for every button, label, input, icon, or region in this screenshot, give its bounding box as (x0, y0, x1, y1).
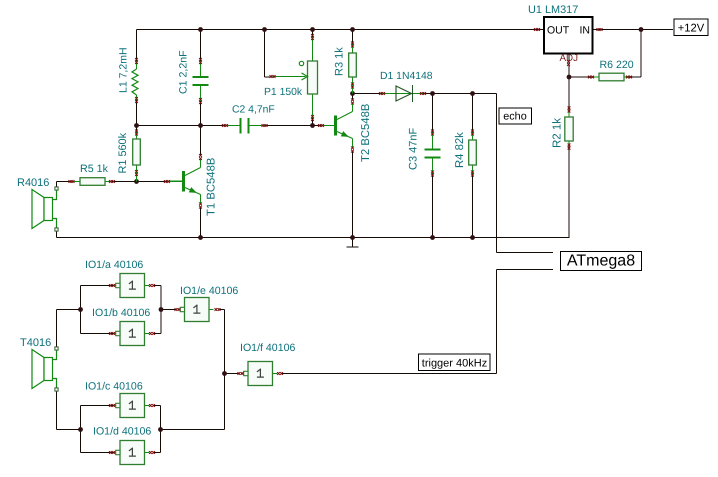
svg-text:U1 LM317: U1 LM317 (528, 4, 578, 16)
svg-text:T2 BC548B: T2 BC548B (360, 104, 372, 162)
svg-text:R4016: R4016 (17, 177, 49, 189)
svg-text:IN: IN (580, 25, 591, 37)
svg-text:trigger 40kHz: trigger 40kHz (422, 357, 487, 369)
svg-text:IO1/a 40106: IO1/a 40106 (85, 259, 143, 271)
svg-text:echo: echo (503, 111, 526, 123)
svg-text:R1 560k: R1 560k (117, 132, 129, 173)
svg-text:R5 1k: R5 1k (80, 163, 109, 175)
svg-text:R4 82k: R4 82k (454, 132, 466, 168)
svg-text:C2 4,7nF: C2 4,7nF (232, 105, 275, 116)
svg-text:IO1/f 40106: IO1/f 40106 (240, 342, 295, 354)
svg-text:T4016: T4016 (20, 337, 51, 349)
svg-text:IO1/c 40106: IO1/c 40106 (85, 381, 143, 393)
svg-text:D1 1N4148: D1 1N4148 (380, 71, 433, 82)
svg-text:OUT: OUT (547, 25, 570, 37)
svg-text:T1 BC548B: T1 BC548B (206, 158, 218, 216)
svg-text:C1 2,2nF: C1 2,2nF (178, 50, 190, 94)
svg-text:C3 47nF: C3 47nF (408, 128, 420, 170)
svg-text:P1 150k: P1 150k (264, 87, 303, 98)
svg-text:IO1/b 40106: IO1/b 40106 (92, 307, 150, 319)
svg-text:ADJ: ADJ (560, 53, 579, 64)
svg-text:L1 7,2mH: L1 7,2mH (118, 47, 130, 93)
svg-text:IO1/d 40106: IO1/d 40106 (93, 426, 151, 438)
svg-text:ATmega8: ATmega8 (567, 253, 635, 270)
svg-text:R3 1k: R3 1k (334, 47, 346, 76)
svg-text:R2 1k: R2 1k (552, 118, 564, 148)
svg-text:IO1/e 40106: IO1/e 40106 (180, 285, 238, 297)
svg-text:+12V: +12V (678, 23, 705, 35)
svg-text:R6 220: R6 220 (600, 59, 634, 71)
